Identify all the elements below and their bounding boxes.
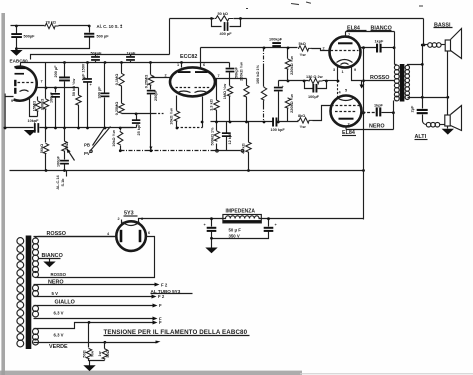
svg-text:50kpF: 50kpF (234, 66, 238, 78)
svg-text:5 V: 5 V (52, 291, 59, 296)
svg-text:100kpF: 100kpF (269, 38, 283, 42)
svg-text:GIALLO: GIALLO (55, 300, 75, 306)
svg-text:5kΩ: 5kΩ (299, 42, 306, 46)
svg-text:Al. C. 10 S. 1: Al. C. 10 S. 1 (97, 24, 123, 29)
svg-text:IMPEDENZA: IMPEDENZA (226, 209, 256, 215)
svg-text:½w: ½w (91, 351, 95, 357)
svg-text:½w: ½w (300, 125, 306, 129)
svg-text:1MΩ ½w: 1MΩ ½w (223, 84, 227, 100)
svg-text:130 Ω 2w: 130 Ω 2w (306, 75, 323, 79)
svg-text:220kΩ ½w: 220kΩ ½w (290, 94, 294, 113)
svg-text:0,25MΩ: 0,25MΩ (115, 102, 119, 116)
svg-text:ALTI: ALTI (415, 134, 427, 140)
svg-text:NERO: NERO (369, 124, 385, 130)
svg-text:12 kpF: 12 kpF (228, 132, 232, 145)
svg-text:3,3 kΩ: 3,3 kΩ (209, 99, 213, 111)
svg-text:7: 7 (218, 74, 220, 78)
svg-text:10kΩ ½w: 10kΩ ½w (169, 108, 173, 125)
svg-text:250pF: 250pF (154, 89, 158, 101)
svg-text:S.1b: S.1b (61, 178, 65, 187)
svg-text:6: 6 (203, 63, 205, 67)
svg-text:2: 2 (165, 74, 167, 78)
svg-text:100μF: 100μF (308, 95, 320, 99)
svg-text:ROSSO: ROSSO (51, 272, 67, 277)
svg-text:ROSSO: ROSSO (370, 75, 389, 81)
svg-text:300 pF: 300 pF (97, 86, 101, 99)
svg-text:5μF 150V: 5μF 150V (82, 63, 86, 80)
svg-text:NERO: NERO (48, 280, 64, 286)
svg-text:50 kΩ ½w: 50 kΩ ½w (72, 79, 76, 97)
svg-text:AL.C.14: AL.C.14 (56, 175, 60, 190)
svg-text:F: F (159, 320, 162, 325)
svg-text:8: 8 (141, 217, 143, 221)
svg-text:6.3 V: 6.3 V (54, 310, 64, 315)
svg-text:ROSSO: ROSSO (47, 231, 66, 237)
svg-text:6.3 V: 6.3 V (54, 332, 64, 337)
svg-text:100 kpF: 100 kpF (271, 128, 286, 132)
svg-text:1kpF: 1kpF (374, 103, 384, 107)
svg-text:50 μ F: 50 μ F (229, 228, 242, 233)
svg-text:25 kpF: 25 kpF (137, 123, 141, 136)
svg-text:50kpF: 50kpF (91, 52, 103, 56)
svg-text:9: 9 (354, 68, 356, 72)
svg-text:100μF: 100μF (49, 91, 53, 103)
svg-text:500pF: 500pF (24, 35, 36, 39)
svg-text:220kΩ ½w: 220kΩ ½w (290, 56, 294, 75)
svg-text:3: 3 (333, 68, 335, 72)
svg-text:100 kΩ 1%: 100 kΩ 1% (256, 64, 260, 84)
svg-text:2: 2 (118, 217, 120, 221)
svg-text:200 μF: 200 μF (54, 65, 58, 78)
svg-text:F 2: F 2 (161, 283, 168, 288)
svg-text:9: 9 (11, 99, 13, 103)
svg-text:10kpF: 10kpF (28, 119, 40, 123)
svg-text:0,1MΩ: 0,1MΩ (115, 74, 119, 86)
svg-text:BIANCO: BIANCO (42, 253, 63, 259)
svg-text:VERDE: VERDE (49, 344, 68, 350)
svg-text:2: 2 (323, 47, 325, 51)
svg-text:56kΩ: 56kΩ (40, 144, 44, 153)
svg-text:F: F (159, 303, 162, 308)
svg-text:48 kΩ: 48 kΩ (241, 143, 245, 153)
svg-text:15MΩ: 15MΩ (32, 101, 36, 111)
svg-text:100pF: 100pF (56, 155, 60, 167)
svg-text:PB: PB (84, 143, 90, 148)
svg-text:350 V: 350 V (229, 234, 240, 239)
svg-text:1: 1 (177, 63, 179, 67)
svg-text:6: 6 (148, 231, 150, 235)
svg-text:50Ω: 50Ω (106, 350, 110, 357)
svg-text:TENSIONE PER IL FILAMENTO DELL: TENSIONE PER IL FILAMENTO DELLA EABC80 (104, 329, 248, 336)
svg-text:200kΩ: 200kΩ (41, 99, 45, 111)
svg-text:10kΩ ½w: 10kΩ ½w (112, 130, 116, 147)
svg-text:PV: PV (84, 151, 90, 156)
svg-text:1kpF: 1kpF (375, 40, 385, 44)
svg-text:2μF: 2μF (411, 105, 415, 112)
svg-text:F 2: F 2 (158, 294, 165, 299)
svg-text:1w: 1w (98, 351, 102, 356)
svg-text:7: 7 (41, 80, 43, 84)
svg-text:50Ω: 50Ω (82, 350, 86, 357)
svg-text:ECC82: ECC82 (180, 54, 197, 60)
svg-text:1kpF: 1kpF (127, 52, 137, 56)
svg-text:0,25MΩ: 0,25MΩ (144, 75, 148, 89)
svg-text:7: 7 (348, 33, 350, 37)
svg-text:400 pF: 400 pF (220, 32, 233, 36)
svg-text:78 kΩ: 78 kΩ (46, 21, 56, 25)
svg-text:½w: ½w (300, 53, 306, 57)
svg-text:500kΩ 1%: 500kΩ 1% (210, 127, 214, 146)
svg-text:8kΩ: 8kΩ (298, 114, 305, 118)
svg-text:7: 7 (348, 123, 350, 127)
svg-text:500 pF: 500 pF (97, 35, 110, 39)
svg-text:50 kΩ: 50 kΩ (218, 12, 228, 16)
svg-text:1: 1 (342, 70, 344, 74)
svg-text:220kΩ ½w: 220kΩ ½w (240, 62, 244, 81)
svg-text:5: 5 (345, 89, 347, 93)
